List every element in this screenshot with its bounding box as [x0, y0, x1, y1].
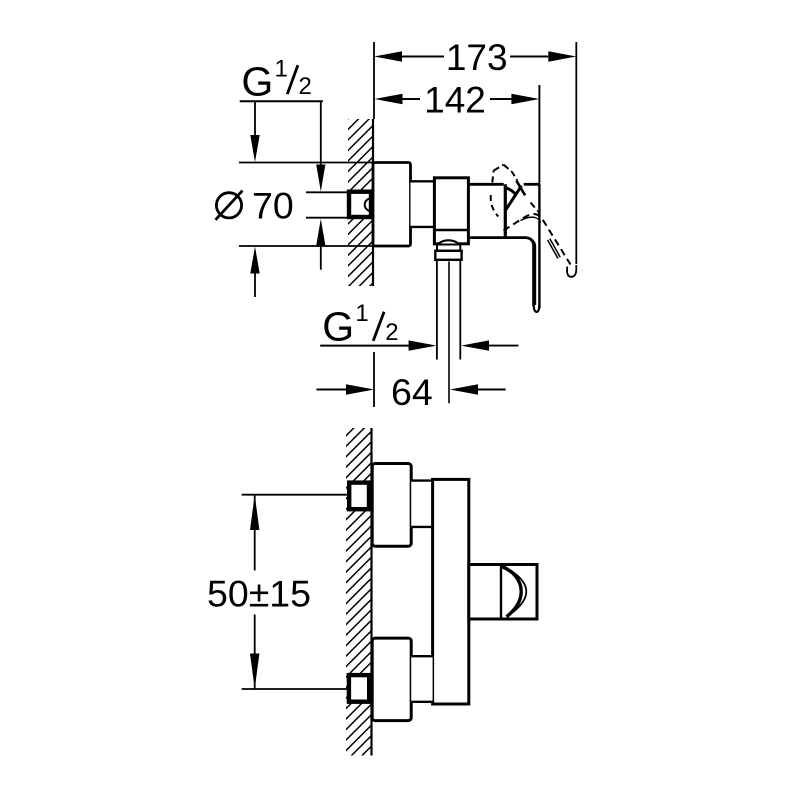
svg-text:1: 1: [274, 55, 287, 82]
svg-text:G: G: [322, 303, 354, 349]
svg-text:64: 64: [391, 371, 433, 413]
svg-text:70: 70: [252, 184, 294, 226]
svg-text:50±15: 50±15: [207, 573, 311, 615]
svg-text:142: 142: [424, 80, 486, 121]
svg-text:173: 173: [446, 37, 508, 78]
svg-text:1: 1: [355, 300, 368, 327]
svg-text:2: 2: [299, 73, 312, 100]
svg-text:2: 2: [385, 319, 398, 346]
svg-text:G: G: [241, 58, 273, 104]
